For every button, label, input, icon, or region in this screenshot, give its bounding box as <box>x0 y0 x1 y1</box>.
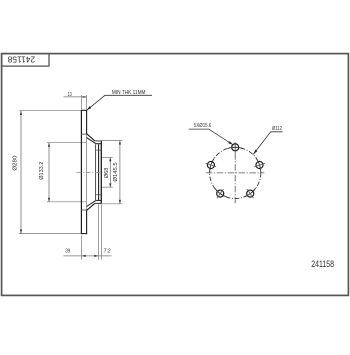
svg-text:39: 39 <box>65 249 70 255</box>
flange top edge <box>95 140 101 142</box>
dim 13 extension lines <box>80 95 82 109</box>
horizontal centerline <box>206 172 264 174</box>
dim Ø68 line <box>109 158 111 188</box>
bolt hole top line <box>96 149 102 151</box>
svg-text:241158: 241158 <box>7 54 35 63</box>
bolt circle arc through lower-left hole <box>215 188 227 197</box>
dim Ø280 extension line bottom <box>19 233 81 235</box>
dim 39 line <box>64 255 112 257</box>
svg-text:Ø133.2: Ø133.2 <box>39 162 45 180</box>
dim Ø68 extension lines <box>102 157 113 159</box>
disc right face (middle, behind hat) <box>86 134 88 210</box>
leader Ø112 <box>253 132 282 155</box>
bolt circle arc through upper-right hole <box>256 158 261 172</box>
svg-text:Ø68: Ø68 <box>104 168 110 179</box>
svg-text:Ø145.5: Ø145.5 <box>113 162 119 181</box>
flange bottom edge <box>95 202 101 204</box>
vertical centerline <box>234 142 236 203</box>
hat-disc intersection edge top <box>81 133 86 135</box>
leader MIN THK 11MM <box>87 95 152 110</box>
hat cylinder top line <box>96 143 101 145</box>
title box <box>2 54 49 67</box>
bolt hole upper left <box>207 161 214 168</box>
dim 13 line <box>64 96 88 98</box>
hat outer diagonal top <box>87 134 95 141</box>
hat inner diagonal top <box>87 138 96 144</box>
border frame <box>2 54 349 296</box>
dim 39 / 7.2 extension lines <box>80 236 82 260</box>
bolt hole lower right <box>247 190 254 197</box>
bolt hole bottom line <box>96 194 102 196</box>
vertical centerline solid segment through top hole <box>234 143 236 154</box>
dim Ø280 line <box>20 111 22 234</box>
disc bottom edge <box>81 233 87 235</box>
hub mounting face <box>98 144 100 200</box>
svg-text:MIN THK 11MM: MIN THK 11MM <box>112 90 146 96</box>
bolt hole lower left <box>217 190 224 197</box>
svg-text:Ø280: Ø280 <box>12 156 18 171</box>
disc right face (outer parts) <box>86 110 88 134</box>
svg-text:241158: 241158 <box>311 259 334 269</box>
disc left face <box>80 110 82 234</box>
dim Ø133.2 line <box>48 143 50 202</box>
svg-text:Ø112: Ø112 <box>272 126 282 132</box>
svg-text:7.2: 7.2 <box>104 249 111 255</box>
pilot face <box>100 141 102 204</box>
hat inner wall <box>95 144 97 200</box>
radial tick lower-right hole <box>247 189 254 198</box>
leader 5XØ15.6 <box>189 129 234 145</box>
dim Ø145.5 line <box>119 141 121 204</box>
hat cylinder bottom line <box>96 199 101 201</box>
radial tick upper-left hole <box>206 163 217 166</box>
section centerline <box>77 171 103 173</box>
dim Ø133.2 extension lines <box>47 142 86 144</box>
hat-disc intersection edge bottom <box>81 209 86 211</box>
dim Ø280 extension line top <box>19 110 81 112</box>
radial tick upper-right hole <box>254 163 264 166</box>
hat inner diagonal bottom <box>87 200 96 206</box>
svg-text:13: 13 <box>68 92 72 98</box>
bolt circle arc through lower-right hole <box>244 188 256 197</box>
disc top edge <box>81 109 87 111</box>
bolt hole top <box>232 144 239 151</box>
hat outer diagonal bottom <box>87 203 95 210</box>
dim Ø145.5 extension lines <box>95 140 123 142</box>
bolt hole upper right <box>256 161 263 168</box>
bolt circle arc through upper-left hole <box>210 158 215 172</box>
bolt circle (dash-dot) <box>210 147 261 198</box>
bolt circle arc through top hole <box>228 147 243 148</box>
svg-text:5XØ15.6: 5XØ15.6 <box>194 123 211 129</box>
radial tick lower-left hole <box>217 189 224 198</box>
